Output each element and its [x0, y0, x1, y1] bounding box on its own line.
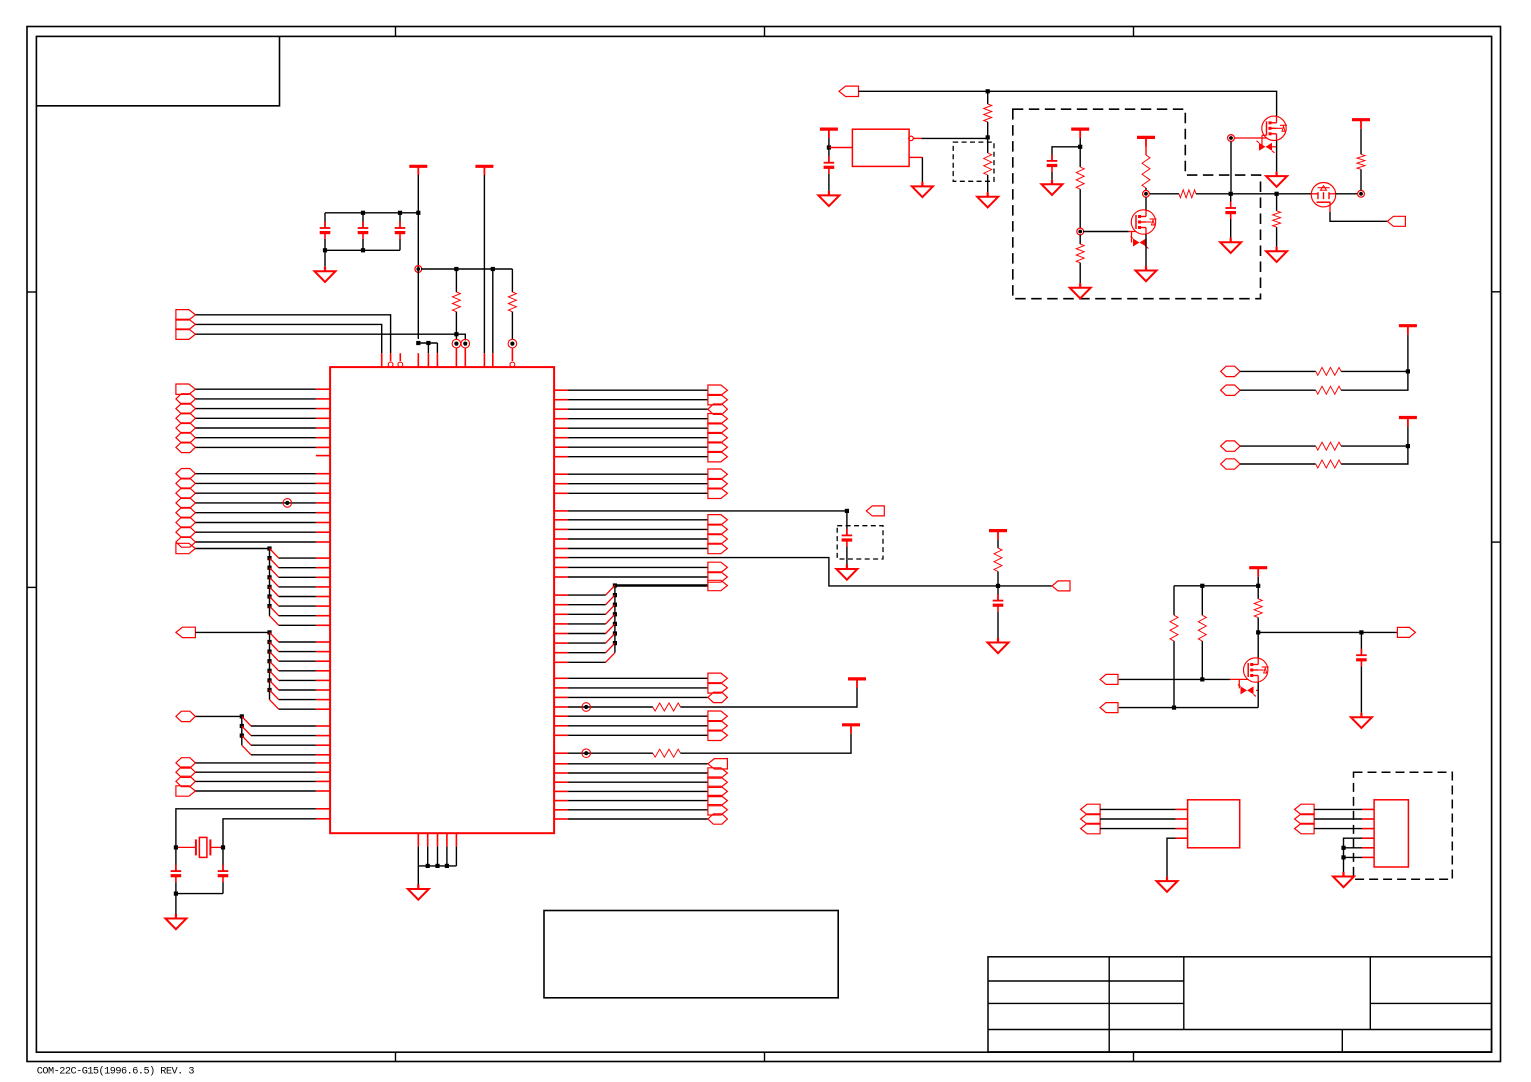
zener D2 — [1262, 134, 1267, 136]
wire — [859, 91, 1277, 116]
junction — [416, 211, 420, 215]
pin — [554, 781, 568, 783]
junction — [1406, 444, 1410, 448]
ground — [1079, 283, 1081, 288]
connector — [1221, 459, 1241, 469]
wire — [1145, 146, 1147, 155]
junction — [827, 145, 831, 149]
wire — [279, 641, 316, 643]
wire — [279, 708, 316, 710]
capacitor C9 — [1230, 194, 1232, 208]
pin — [554, 623, 568, 625]
resistor R16 — [994, 548, 1002, 572]
ground — [1342, 872, 1344, 877]
pin — [316, 492, 330, 494]
wire — [568, 661, 606, 663]
IC U1 — [330, 367, 554, 833]
junction — [361, 211, 365, 215]
bus junction — [267, 566, 271, 570]
wire — [1119, 678, 1231, 680]
pin — [316, 708, 330, 710]
wire — [568, 687, 708, 689]
wire — [1100, 818, 1175, 820]
wire — [568, 456, 708, 458]
pin — [554, 633, 568, 635]
pin — [417, 353, 419, 367]
resistor R4 — [653, 749, 681, 757]
wire — [568, 725, 708, 727]
resistor R6 — [987, 137, 989, 153]
capacitor C1 — [175, 865, 177, 872]
connector JA5 — [176, 423, 196, 433]
wire (gate) — [1230, 678, 1248, 680]
pin — [316, 780, 330, 782]
connector JD2 — [176, 767, 196, 777]
connector JA4 — [176, 413, 196, 423]
connector JB1 — [176, 469, 196, 479]
wire — [325, 249, 400, 251]
connector PL3 — [1081, 823, 1101, 833]
wire — [421, 268, 512, 270]
title block — [988, 957, 1492, 1052]
pin — [1176, 808, 1188, 810]
pin — [316, 790, 330, 792]
connector P5 — [1100, 703, 1118, 713]
resistor R8 — [1076, 244, 1084, 263]
wire — [568, 510, 847, 512]
power rail VCC2 — [475, 165, 493, 168]
junction — [1078, 145, 1082, 149]
transistor Q2 — [1262, 116, 1286, 140]
wire — [681, 688, 858, 708]
bus entry — [606, 595, 615, 605]
pin — [1176, 828, 1188, 830]
bus entry — [270, 632, 279, 642]
bus junction — [267, 575, 271, 579]
pin — [1362, 847, 1374, 849]
bus entry — [270, 616, 279, 626]
bus junction — [267, 640, 271, 644]
wire — [446, 847, 448, 866]
wire — [1150, 193, 1179, 195]
pin — [554, 687, 568, 689]
wire — [828, 148, 830, 163]
wire — [418, 865, 456, 867]
wire — [279, 567, 316, 569]
wire — [568, 642, 606, 644]
wire — [196, 408, 316, 410]
connector JZ1 — [708, 759, 728, 769]
power rail VCC5 — [820, 128, 838, 131]
bus junction — [267, 585, 271, 589]
connector JZ3 — [708, 777, 728, 787]
pin — [554, 772, 568, 774]
bus junction — [267, 688, 271, 692]
bus junction — [240, 734, 244, 738]
wire — [196, 790, 316, 792]
pin — [554, 528, 568, 530]
wire — [1257, 632, 1259, 657]
pin — [316, 398, 330, 400]
bus entry — [270, 700, 279, 710]
junction — [1229, 192, 1233, 196]
ground — [1051, 180, 1053, 185]
junction — [435, 864, 439, 868]
pin — [455, 833, 457, 846]
wire — [455, 334, 457, 339]
junction — [1275, 192, 1279, 196]
connector JU3 — [708, 534, 728, 544]
bus entry — [270, 568, 279, 578]
pin — [554, 427, 568, 429]
bus junction — [240, 714, 244, 718]
connector JD3 — [176, 776, 196, 786]
wire — [568, 818, 708, 820]
wire — [196, 502, 316, 504]
pin — [316, 473, 330, 475]
zener D1 — [1131, 232, 1133, 243]
pin — [316, 651, 330, 653]
power rail VCC3 — [848, 677, 866, 680]
connector JR7 — [708, 442, 728, 452]
pin — [1362, 837, 1374, 839]
wire — [1258, 631, 1397, 633]
connector PL1 — [1081, 804, 1101, 814]
junction — [323, 248, 327, 252]
dashed box — [837, 526, 883, 559]
wire — [568, 399, 708, 401]
connector JC3 (bus) — [176, 711, 196, 721]
wire — [568, 418, 708, 420]
connector JT1 — [866, 506, 884, 516]
pin — [316, 615, 330, 617]
crystal Y1 — [176, 846, 196, 848]
bus wire — [615, 584, 708, 587]
connector JU1 — [708, 515, 728, 525]
bus entry — [606, 586, 615, 596]
wire — [1052, 147, 1080, 161]
pin — [316, 427, 330, 429]
bus entry — [270, 549, 279, 559]
resistor R14 — [1201, 586, 1203, 615]
dashed box — [1354, 772, 1453, 879]
connector JR8 — [708, 452, 728, 462]
connector JB2 — [176, 478, 196, 488]
wire — [427, 847, 429, 866]
wire — [1167, 838, 1176, 876]
wire — [196, 780, 316, 782]
wire — [568, 715, 708, 717]
module U4 — [1374, 800, 1408, 867]
wire — [828, 138, 830, 148]
wire — [568, 483, 708, 485]
ground — [828, 191, 830, 196]
pin — [554, 389, 568, 391]
connector JX3 — [708, 692, 728, 702]
wire — [251, 744, 316, 746]
pin — [316, 502, 330, 504]
pin — [316, 408, 330, 410]
pin — [554, 642, 568, 644]
wire — [1240, 389, 1316, 391]
ground — [987, 192, 989, 197]
pin — [316, 531, 330, 533]
resistor R11 — [1276, 194, 1278, 211]
junction — [491, 267, 495, 271]
wire — [196, 512, 316, 514]
bus wire — [196, 548, 270, 550]
wire — [251, 725, 316, 727]
connector JV2 — [708, 572, 728, 582]
connector PR2 — [1295, 814, 1315, 824]
module U3 — [1188, 800, 1240, 848]
connector JY3 — [708, 730, 728, 740]
wire — [1314, 818, 1362, 820]
bus entry — [270, 680, 279, 690]
junction (test point) — [285, 501, 289, 505]
bus junction — [613, 622, 617, 626]
wire — [492, 269, 494, 353]
connector PR3 — [1295, 823, 1315, 833]
wire — [568, 781, 708, 783]
pin — [554, 790, 568, 792]
node — [1229, 136, 1233, 140]
wire — [1083, 231, 1129, 233]
wire — [1407, 335, 1409, 372]
wire — [279, 651, 316, 653]
capacitor C10 — [1360, 632, 1362, 655]
pin (nc) — [399, 353, 401, 361]
pin — [554, 408, 568, 410]
pin — [316, 512, 330, 514]
wire — [417, 175, 419, 269]
wire — [196, 522, 316, 524]
wire — [568, 763, 708, 765]
connector JD4 — [176, 786, 196, 796]
pin — [316, 417, 330, 419]
bus junction — [613, 593, 617, 597]
connector JB7 — [176, 527, 196, 537]
wire — [279, 699, 316, 701]
resistor R3 — [653, 703, 681, 711]
pin — [427, 353, 429, 367]
resistor R1 — [455, 269, 457, 292]
wire — [196, 482, 316, 484]
pin — [464, 348, 466, 367]
wire — [568, 677, 708, 679]
wire — [324, 250, 326, 266]
pin — [316, 522, 330, 524]
wire — [279, 679, 316, 681]
junction — [426, 864, 430, 868]
pin — [554, 696, 568, 698]
bus entry — [270, 597, 279, 607]
pin — [554, 752, 568, 754]
wire — [279, 605, 316, 607]
bus entry — [606, 643, 615, 653]
wire — [196, 531, 316, 533]
resistor — [1316, 442, 1341, 450]
wire — [568, 528, 708, 530]
connector JZ5 — [708, 795, 728, 805]
resistor R2 — [511, 269, 513, 292]
wire — [681, 734, 852, 753]
resistor R15 — [1254, 599, 1262, 618]
power rail VCC6 — [1071, 128, 1089, 131]
resistor — [1316, 386, 1341, 394]
junction — [996, 584, 1000, 588]
wire — [418, 342, 437, 344]
capacitor C5 — [399, 213, 401, 228]
bus junction — [613, 603, 617, 607]
dashed box — [953, 142, 994, 181]
bus entry — [270, 671, 279, 681]
pin — [554, 613, 568, 615]
pin — [316, 641, 330, 643]
bus junction — [267, 678, 271, 682]
wire — [1336, 193, 1358, 195]
junction — [1200, 677, 1204, 681]
regulator U2 — [852, 129, 909, 166]
bus junction — [267, 630, 271, 634]
connector JA6 — [176, 433, 196, 443]
resistor — [1316, 460, 1341, 468]
wire — [417, 866, 419, 885]
pin — [554, 706, 568, 708]
wire — [417, 269, 419, 339]
connector JB5 — [176, 508, 196, 518]
wire — [1257, 577, 1259, 599]
bus entry — [606, 653, 615, 663]
bus entry — [270, 690, 279, 700]
pin — [554, 483, 568, 485]
pin — [554, 725, 568, 727]
power rail — [1399, 324, 1417, 327]
wire — [1145, 234, 1147, 266]
pin — [554, 418, 568, 420]
pin — [316, 388, 330, 390]
pin — [316, 679, 330, 681]
power rail VCC10 — [989, 529, 1007, 532]
pin — [554, 557, 568, 559]
connector JY1 — [708, 711, 728, 721]
connector JZ2 — [708, 768, 728, 778]
pin — [554, 800, 568, 802]
connector JA2 — [176, 394, 196, 404]
junction — [1359, 630, 1363, 634]
wire (lead) — [1329, 202, 1331, 212]
pin — [316, 624, 330, 626]
bus junction — [267, 669, 271, 673]
wire — [846, 546, 848, 564]
pin — [417, 833, 419, 846]
pin — [1362, 818, 1374, 820]
pin — [1176, 818, 1188, 820]
connector JR6 — [708, 433, 728, 443]
wire — [1230, 142, 1232, 192]
ground — [921, 182, 923, 187]
pin — [381, 353, 383, 367]
pin — [316, 762, 330, 764]
ground — [417, 885, 419, 890]
connector JW1 (bus) — [708, 580, 728, 590]
pin — [554, 594, 568, 596]
bus entry — [270, 558, 279, 568]
ground — [1166, 877, 1168, 882]
pin — [554, 519, 568, 521]
connector JB3 — [176, 488, 196, 498]
transistor Q1 — [1131, 210, 1155, 234]
wire — [437, 847, 439, 866]
wire — [222, 882, 224, 894]
pin — [316, 744, 330, 746]
connector P3 — [1397, 627, 1415, 637]
power rail VCC4 — [842, 723, 860, 726]
pin — [316, 660, 330, 662]
wire — [568, 566, 708, 568]
junction — [1256, 584, 1260, 588]
wire — [196, 388, 316, 390]
power rail — [1399, 416, 1417, 419]
wire — [1145, 197, 1147, 210]
junction — [174, 845, 178, 849]
pin — [316, 605, 330, 607]
wire — [997, 612, 999, 638]
bus junction — [613, 641, 617, 645]
junction — [1341, 855, 1345, 859]
wire — [417, 847, 419, 866]
pin — [1362, 808, 1374, 810]
wire — [568, 633, 606, 635]
junction — [510, 342, 514, 346]
ground — [1230, 238, 1232, 243]
wire — [568, 652, 606, 654]
connector JZ4 — [708, 786, 728, 796]
pin — [316, 557, 330, 559]
pin — [316, 437, 330, 439]
connector JU2 — [708, 524, 728, 534]
connector JB4 — [176, 498, 196, 508]
connector JR4 — [708, 414, 728, 424]
wire — [1330, 212, 1387, 221]
pin — [554, 652, 568, 654]
junction — [416, 341, 420, 345]
connector JA1 — [176, 384, 196, 394]
connector JS2 — [708, 479, 728, 489]
wire — [279, 576, 316, 578]
connector — [1221, 366, 1241, 376]
wire — [568, 604, 606, 606]
wire — [997, 586, 999, 601]
ground — [324, 267, 326, 272]
ground — [175, 914, 177, 919]
wire — [568, 446, 708, 448]
resistor R7 — [1079, 147, 1081, 167]
pin — [316, 771, 330, 773]
connector JX2 — [708, 683, 728, 693]
pin — [554, 566, 568, 568]
wire — [568, 427, 708, 429]
wire — [1360, 129, 1362, 155]
wire — [568, 752, 653, 754]
pin — [316, 735, 330, 737]
bus junction — [240, 724, 244, 728]
pin (out) — [909, 136, 914, 141]
wire — [1341, 445, 1408, 447]
wire — [279, 670, 316, 672]
wire — [196, 492, 316, 494]
bus entry — [270, 652, 279, 662]
